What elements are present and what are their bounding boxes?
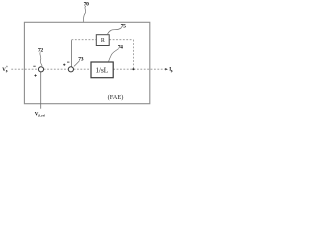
svg-text:β: β: [6, 69, 8, 73]
svg-text:75: 75: [121, 24, 126, 30]
svg-text:72: 72: [38, 48, 43, 54]
svg-text:+: +: [6, 65, 8, 69]
svg-text:R: R: [101, 38, 105, 44]
svg-text:β: β: [171, 69, 173, 73]
svg-text:(FAE): (FAE): [108, 94, 124, 101]
svg-text:70: 70: [84, 1, 89, 7]
svg-text:74: 74: [118, 44, 123, 50]
svg-text:β_ref: β_ref: [39, 115, 45, 118]
svg-text:1/sL: 1/sL: [95, 66, 108, 75]
